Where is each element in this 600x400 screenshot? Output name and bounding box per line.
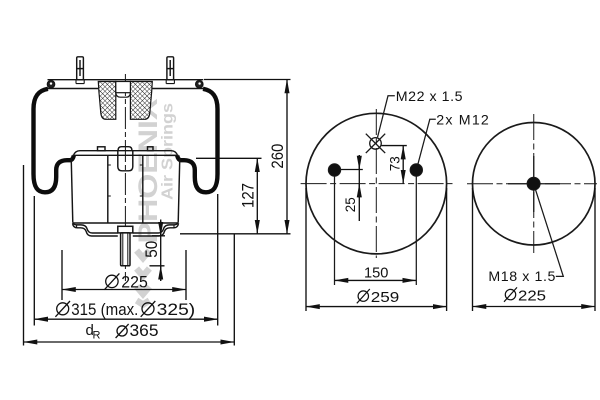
piston side walls bbox=[71, 158, 73, 223]
dim 260 extension + line bbox=[204, 79, 291, 81]
svg-text:225: 225 bbox=[518, 287, 546, 304]
solid crosshair near bolt bbox=[508, 156, 560, 212]
bellows thick outline left bbox=[34, 89, 74, 193]
centerline horizontal bbox=[467, 183, 597, 185]
label dia 259 bbox=[357, 289, 370, 303]
leader M12 bbox=[418, 119, 436, 164]
svg-text:315 (max.: 315 (max. bbox=[71, 300, 138, 319]
dim 73 bbox=[382, 145, 407, 147]
centerline vertical bbox=[533, 114, 535, 253]
circle middle view bbox=[306, 113, 447, 254]
label dia 315 max 325 bbox=[55, 301, 155, 317]
svg-text:25: 25 bbox=[343, 197, 358, 212]
svg-text:2x M12: 2x M12 bbox=[436, 113, 489, 129]
stud right bbox=[166, 57, 174, 84]
svg-text:PHOENIX: PHOENIX bbox=[133, 99, 163, 244]
stud left bbox=[76, 57, 84, 84]
svg-text:365: 365 bbox=[130, 322, 159, 340]
dim 50 bbox=[150, 236, 166, 266]
bottom stud bbox=[121, 233, 130, 266]
label dia 225 left bbox=[104, 273, 119, 289]
piston center tube bbox=[118, 151, 133, 171]
top plate bbox=[47, 80, 203, 89]
dim 225 extensions + line bbox=[62, 250, 186, 300]
dim 225 right extensions + line bbox=[473, 188, 596, 311]
leader M18 bbox=[536, 190, 564, 277]
svg-text:127: 127 bbox=[239, 183, 258, 208]
watermark phoenix logo chevrons bbox=[137, 251, 150, 305]
dim 259 extensions + line bbox=[306, 188, 447, 311]
dim 315 extensions + line bbox=[34, 194, 217, 326]
svg-text:M22 x 1.5: M22 x 1.5 bbox=[396, 89, 463, 105]
circle right view bbox=[473, 123, 596, 246]
center bolt bbox=[527, 177, 540, 190]
svg-text:73: 73 bbox=[387, 156, 402, 171]
label dia 225 right bbox=[504, 287, 517, 301]
centerline vertical bbox=[375, 109, 377, 258]
centerline left view bbox=[124, 74, 126, 281]
dim 150 bbox=[335, 279, 417, 281]
svg-text:150: 150 bbox=[364, 265, 388, 282]
bumper (hatched rubber buffer) bbox=[98, 82, 152, 120]
bolt left bbox=[328, 164, 340, 176]
bolt right bbox=[410, 164, 422, 176]
dim 25 bbox=[341, 169, 363, 171]
svg-text:R: R bbox=[93, 329, 101, 341]
M22 thread symbol bbox=[366, 134, 385, 153]
bellows thick outline right bbox=[177, 89, 217, 193]
dim 127 extension + line bbox=[196, 157, 262, 159]
svg-text:M18 x 1.5: M18 x 1.5 bbox=[488, 269, 555, 285]
svg-text:225: 225 bbox=[121, 273, 148, 292]
piston top plate bbox=[73, 147, 179, 156]
centerline horizontal bbox=[301, 183, 453, 185]
piston inner verticals bbox=[107, 155, 109, 222]
svg-text:260: 260 bbox=[268, 144, 287, 169]
svg-text:50: 50 bbox=[142, 241, 161, 258]
leader M22 bbox=[378, 96, 395, 138]
svg-text:325): 325) bbox=[157, 300, 196, 319]
bolt extension lines bbox=[335, 176, 417, 285]
dim 365 extensions + line bbox=[24, 165, 235, 346]
svg-text:259: 259 bbox=[371, 289, 400, 306]
piston bottom bbox=[73, 223, 179, 236]
blind nut bbox=[118, 226, 133, 233]
